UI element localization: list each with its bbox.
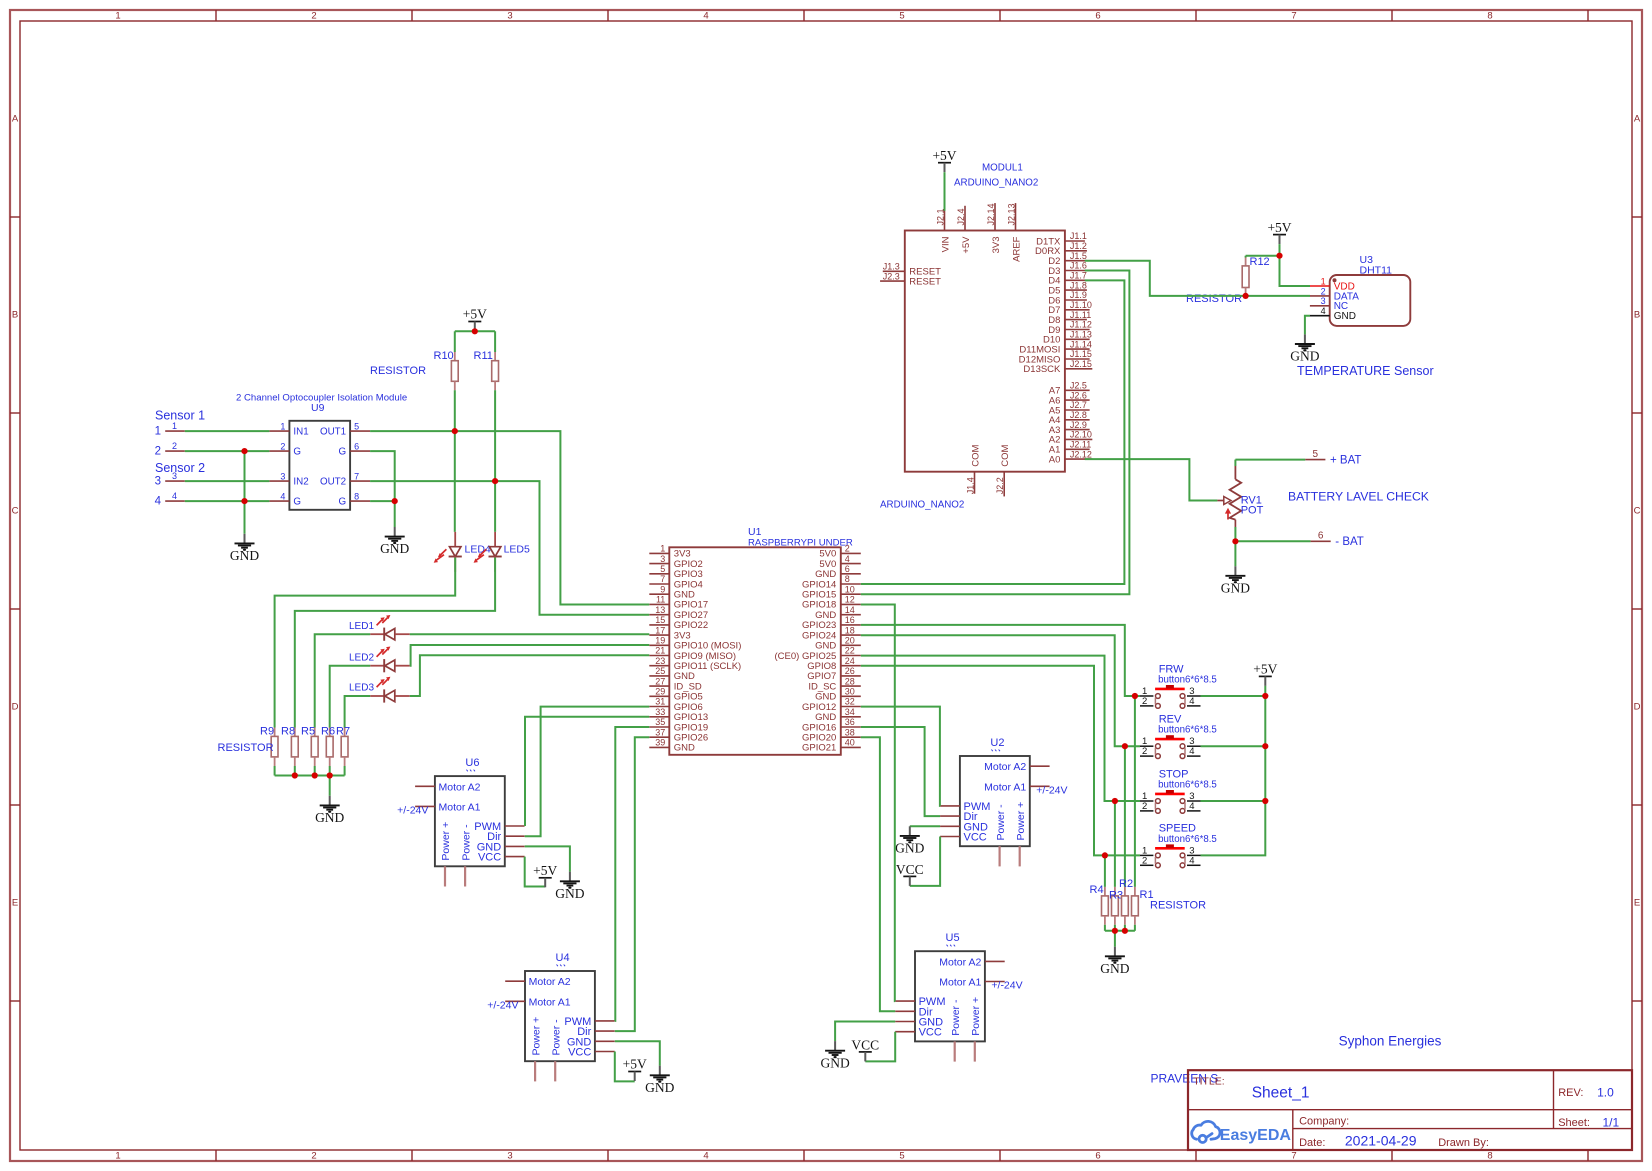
pin 2 of STOP xyxy=(1140,810,1153,812)
svg-text:GND: GND xyxy=(1221,580,1250,595)
svg-text:GND: GND xyxy=(895,841,924,856)
module MODUL1 ARDUINO_NANO2 body xyxy=(905,231,1065,472)
pin Motor A2 of U4 xyxy=(505,980,525,982)
svg-text:22: 22 xyxy=(845,646,855,656)
wire MODUL1 D2 to U3 DATA xyxy=(1085,261,1310,296)
pin 32 GPIO12 of U1 xyxy=(841,706,861,708)
orientation dot of U3 xyxy=(1333,278,1337,282)
svg-text:8: 8 xyxy=(354,491,359,501)
svg-text:20: 20 xyxy=(845,636,855,646)
wire U4 GND to ground xyxy=(615,1041,660,1065)
pin D0RX (J1.2) of MODUL1 xyxy=(1065,250,1087,252)
svg-text:6: 6 xyxy=(1095,11,1100,22)
pin PWM of U6 xyxy=(505,825,525,827)
pin 36 GPIO16 of U1 xyxy=(841,726,861,728)
svg-text:RESISTOR: RESISTOR xyxy=(1150,900,1206,912)
svg-text:VIN: VIN xyxy=(940,236,951,252)
wire LED1 cathode to R5 xyxy=(315,634,371,727)
wire LED2 cathode to R6 xyxy=(330,666,371,728)
pin AREF (J2.13) of MODUL1 xyxy=(1015,203,1017,230)
svg-text:10: 10 xyxy=(845,584,855,594)
svg-text:LED2: LED2 xyxy=(349,652,374,663)
wire SPEED node to R4 xyxy=(1104,855,1106,887)
svg-text:9: 9 xyxy=(660,584,665,594)
pin VCC of U2 xyxy=(940,836,960,838)
pin 29 GPIO5 of U1 xyxy=(649,695,669,697)
svg-text:R2: R2 xyxy=(1119,878,1133,890)
wire U1 GPIO6 pin31 to U6 Dir xyxy=(525,707,650,837)
svg-text:J1.5: J1.5 xyxy=(1070,251,1087,261)
svg-text:LED5: LED5 xyxy=(504,544,530,556)
svg-text:7: 7 xyxy=(1291,11,1296,22)
svg-text:4: 4 xyxy=(1189,855,1194,866)
pin 19 GPIO10 (MOSI) of U1 xyxy=(649,644,669,646)
wire RV1 top to +BAT port xyxy=(1235,459,1305,461)
wire RV1 bottom to ground xyxy=(1234,541,1236,566)
svg-text:1: 1 xyxy=(115,1151,120,1162)
svg-text:Power -: Power - xyxy=(460,824,472,861)
pin D7 (J1.10) of MODUL1 xyxy=(1065,309,1090,311)
pin D13SCK (J2.15) of MODUL1 xyxy=(1065,368,1092,370)
wire U1 GPIO16 pin36 to U2 Dir xyxy=(861,727,940,816)
pin 4 of REV xyxy=(1187,755,1201,757)
svg-text:4: 4 xyxy=(1189,696,1194,707)
svg-text:OUT2: OUT2 xyxy=(320,476,346,487)
resistor R8 xyxy=(294,728,296,737)
pin 7 GPIO4 of U1 xyxy=(649,583,669,585)
svg-text:37: 37 xyxy=(655,727,665,737)
svg-text:R6: R6 xyxy=(321,725,335,737)
svg-text:28: 28 xyxy=(845,676,855,686)
ground GND at U4 xyxy=(659,1066,661,1075)
svg-text:- BAT: - BAT xyxy=(1335,536,1364,548)
svg-text:Power -: Power - xyxy=(950,999,962,1036)
wire U3 GND pin to ground xyxy=(1305,316,1310,335)
svg-text:+5V: +5V xyxy=(463,307,487,322)
wire +5V to VDD xyxy=(1280,244,1311,286)
wire U1 GPIO24 pin18 to REV pin1 xyxy=(861,635,1140,746)
junction R11-OUT2 xyxy=(492,478,498,484)
svg-text:G: G xyxy=(338,446,346,457)
svg-text:GND: GND xyxy=(1334,311,1356,322)
ground GND below R5-R9 xyxy=(329,796,331,805)
svg-text:3: 3 xyxy=(660,554,665,564)
pin 1 of FRW xyxy=(1140,695,1153,697)
svg-text:17: 17 xyxy=(655,625,665,635)
svg-text:15: 15 xyxy=(655,615,665,625)
pin 13 GPIO27 of U1 xyxy=(649,614,669,616)
pin 34 GND of U1 xyxy=(841,716,861,718)
junction bus FRW xyxy=(1262,693,1268,699)
pin 3V3 (J2.14) of MODUL1 xyxy=(994,203,996,230)
wire MODUL1 D4 to U1 GPIO14 pin8 xyxy=(861,280,1125,584)
svg-text:G: G xyxy=(338,496,346,507)
pin VCC of U5 xyxy=(895,1031,915,1033)
svg-text:EasyEDA: EasyEDA xyxy=(1220,1127,1292,1144)
svg-text:2: 2 xyxy=(172,441,177,451)
svg-text:23: 23 xyxy=(655,656,665,666)
ground GND at U3 xyxy=(1304,334,1306,343)
pin 26 GPIO7 of U1 xyxy=(841,675,861,677)
svg-text:4: 4 xyxy=(1321,306,1326,316)
wire U9 pin8 to ground bus xyxy=(370,500,395,502)
svg-text:button6*6*8.5: button6*6*8.5 xyxy=(1158,725,1217,736)
pin A4 (J2.8) of MODUL1 xyxy=(1065,419,1090,421)
pin Power + of U4 xyxy=(534,1061,536,1081)
svg-text:7: 7 xyxy=(354,471,359,481)
svg-text:OUT1: OUT1 xyxy=(320,426,346,437)
junction R5 bottom xyxy=(312,772,318,778)
potentiometer RV1 body xyxy=(1230,479,1242,519)
svg-text:4: 4 xyxy=(703,1151,708,1162)
pin A5 (J2.7) of MODUL1 xyxy=(1065,409,1090,411)
wire STOP node to R3 xyxy=(1114,801,1116,887)
svg-text:3: 3 xyxy=(1321,296,1326,306)
svg-text:VCC: VCC xyxy=(478,852,501,864)
svg-text:R8: R8 xyxy=(281,725,295,737)
pin A3 (J2.9) of MODUL1 xyxy=(1065,429,1090,431)
svg-text:D: D xyxy=(12,701,19,712)
pin Power + of U2 xyxy=(1019,846,1021,866)
pin 1 VDD of U3 xyxy=(1310,285,1330,287)
wire MODUL1 D3 to U1 GPIO15 pin10 xyxy=(861,271,1130,595)
svg-text:5: 5 xyxy=(354,421,359,431)
potentiometer RV1 adjust arrow xyxy=(1227,512,1229,520)
svg-text:D: D xyxy=(1634,701,1641,712)
pin D3 (J1.6) of MODUL1 xyxy=(1065,270,1087,272)
resistor R5 xyxy=(314,728,316,737)
svg-text:J1.15: J1.15 xyxy=(1070,349,1092,359)
svg-text:1/1: 1/1 xyxy=(1603,1115,1620,1129)
svg-text:U5: U5 xyxy=(946,932,960,944)
svg-text:24: 24 xyxy=(845,656,855,666)
svg-text:7: 7 xyxy=(1291,1151,1296,1162)
resistor R1 xyxy=(1134,887,1136,896)
pin 3 of FRW xyxy=(1187,695,1201,697)
wire LED1 anode to U1 pin17 xyxy=(410,633,650,635)
junction bus REV xyxy=(1262,743,1268,749)
svg-text:J1.10: J1.10 xyxy=(1070,300,1092,310)
pin 30 GND of U1 xyxy=(841,695,861,697)
pin 1 of SPEED xyxy=(1140,854,1153,856)
svg-text:button6*6*8.5: button6*6*8.5 xyxy=(1158,674,1217,685)
junction U9 pin8 node xyxy=(392,498,398,504)
pin VIN (J2.1) of MODUL1 xyxy=(944,208,946,230)
pin GND of U4 xyxy=(595,1040,615,1042)
svg-text:GND: GND xyxy=(820,1055,849,1070)
wire port 4 to U9 pin 4 xyxy=(185,500,270,502)
wire U1 GPIO8 pin24 to SPEED pin1 xyxy=(861,666,1140,856)
svg-text:35: 35 xyxy=(655,717,665,727)
module U5 motor driver body xyxy=(915,951,985,1041)
svg-text:5: 5 xyxy=(899,1151,904,1162)
ground GND at U9 right xyxy=(394,527,396,536)
pin A1 (J2.11) of MODUL1 xyxy=(1065,448,1090,450)
pin 35 GPIO19 of U1 xyxy=(649,726,669,728)
junction +5V R12 xyxy=(1276,253,1282,259)
svg-text:J1.7: J1.7 xyxy=(1070,271,1087,281)
pin 23 GPIO11 (SCLK) of U1 xyxy=(649,665,669,667)
svg-text:GND: GND xyxy=(645,1080,674,1095)
svg-text:2: 2 xyxy=(1142,801,1147,812)
pin COM (J1.4) of MODUL1 xyxy=(974,472,976,494)
svg-text:E: E xyxy=(12,897,18,908)
resistor R12 xyxy=(1242,266,1249,288)
pin PWM of U2 xyxy=(940,805,960,807)
svg-text:Sensor 1: Sensor 1 xyxy=(155,408,205,422)
junction port2 xyxy=(241,448,247,454)
svg-text:D13SCK: D13SCK xyxy=(1023,364,1061,375)
svg-text:8: 8 xyxy=(845,574,850,584)
svg-text:Syphon Energies: Syphon Energies xyxy=(1339,1034,1442,1049)
wire U5 GND to ground xyxy=(835,1022,895,1042)
pin 5 GPIO3 of U1 xyxy=(649,573,669,575)
junction port4 xyxy=(241,498,247,504)
pin 2 DATA of U3 xyxy=(1310,295,1330,297)
svg-text:Date:: Date: xyxy=(1299,1137,1325,1149)
svg-text:GND: GND xyxy=(555,886,584,901)
svg-text:2: 2 xyxy=(1142,855,1147,866)
svg-text:VCC: VCC xyxy=(896,862,924,877)
resistor R4 xyxy=(1104,887,1106,896)
svg-text:5: 5 xyxy=(660,564,665,574)
svg-text:U9: U9 xyxy=(311,402,325,414)
svg-text:2: 2 xyxy=(311,11,316,22)
wire FRW node to R1 xyxy=(1134,696,1136,887)
svg-text:38: 38 xyxy=(845,727,855,737)
pin 18 GPIO24 of U1 xyxy=(841,634,861,636)
wire R1-R4 bottom bus xyxy=(1105,930,1135,932)
svg-text:Sensor 2: Sensor 2 xyxy=(155,461,205,475)
svg-text:J2.15: J2.15 xyxy=(1070,359,1092,369)
svg-text:J2.6: J2.6 xyxy=(1070,390,1087,400)
resistor R6 xyxy=(329,728,331,737)
pin 1 of REV xyxy=(1140,745,1153,747)
pin 33 GPIO13 of U1 xyxy=(649,716,669,718)
wire REV node to R2 xyxy=(1124,746,1126,887)
svg-text:J1.13: J1.13 xyxy=(1070,330,1092,340)
pin D6 (J1.9) of MODUL1 xyxy=(1065,299,1087,301)
junction R10-OUT1 xyxy=(452,428,458,434)
pin 5 OUT1 of U9 xyxy=(350,430,370,432)
svg-text:3: 3 xyxy=(507,11,512,22)
pin 6 G of U9 xyxy=(350,450,370,452)
pin Dir of U5 xyxy=(895,1010,915,1012)
svg-text:Motor A1: Motor A1 xyxy=(984,781,1026,793)
pin 17 3V3 of U1 xyxy=(649,634,669,636)
svg-text:GND: GND xyxy=(1100,961,1129,976)
wire R12 bottom to DATA net xyxy=(1245,288,1247,296)
pin 3 NC of U3 xyxy=(1310,305,1330,307)
wire U1 GPIO13 pin33 to U6 PWM xyxy=(525,717,649,826)
svg-text:29: 29 xyxy=(655,687,665,697)
svg-text:MODUL1: MODUL1 xyxy=(982,163,1023,174)
svg-text:IN1: IN1 xyxy=(293,426,308,437)
pin 37 GPIO26 of U1 xyxy=(649,736,669,738)
svg-text:1: 1 xyxy=(155,426,161,438)
wire LED4 cathode to R9 xyxy=(275,558,456,728)
resistor R7 xyxy=(344,728,346,737)
svg-text:R9: R9 xyxy=(260,725,274,737)
svg-text:GND: GND xyxy=(674,743,695,754)
svg-text:14: 14 xyxy=(845,605,855,615)
wire U4 VCC to +5V xyxy=(615,1052,635,1082)
pin 3 of REV xyxy=(1187,745,1201,747)
LED LED3 xyxy=(370,695,384,697)
svg-text:4: 4 xyxy=(1189,746,1194,757)
svg-text:+5V: +5V xyxy=(533,863,557,878)
svg-text:J2.5: J2.5 xyxy=(1070,381,1087,391)
junction R3 bottom xyxy=(1112,928,1118,934)
pin 31 GPIO6 of U1 xyxy=(649,706,669,708)
pin D2 (J1.5) of MODUL1 xyxy=(1065,260,1087,262)
svg-text:19: 19 xyxy=(655,636,665,646)
svg-text:ARDUINO_NANO2: ARDUINO_NANO2 xyxy=(954,178,1038,189)
svg-text:J2.1: J2.1 xyxy=(935,208,945,225)
wire ports 2-4 ground bus xyxy=(244,451,246,534)
svg-text:J1.3: J1.3 xyxy=(883,262,900,272)
resistor R11 xyxy=(492,361,499,382)
pin 6 GND of U1 xyxy=(841,573,861,575)
pin 38 GPIO20 of U1 xyxy=(841,736,861,738)
svg-text:R11: R11 xyxy=(474,350,493,362)
wire port 3 to U9 pin 3 xyxy=(185,480,270,482)
pin RESET (J2.3) of MODUL1 xyxy=(880,280,905,282)
pin 2 G of U9 xyxy=(269,450,289,452)
pin 25 GND of U1 xyxy=(649,675,669,677)
svg-text:16: 16 xyxy=(845,615,855,625)
wire ground drop U9 right xyxy=(394,501,396,527)
module U6 motor driver body xyxy=(435,776,505,866)
wire U6 VCC to +5V xyxy=(525,857,546,887)
junction +5V split xyxy=(472,328,478,334)
pin 28 ID_SC of U1 xyxy=(841,685,861,687)
pin D10 (J1.13) of MODUL1 xyxy=(1065,338,1090,340)
svg-text:J1.4: J1.4 xyxy=(965,477,975,494)
pin VCC of U4 xyxy=(595,1051,615,1053)
ground GND at U6 xyxy=(569,872,571,881)
ground GND below R1-R4 xyxy=(1114,947,1116,956)
pin D9 (J1.12) of MODUL1 xyxy=(1065,329,1090,331)
svg-text:12: 12 xyxy=(845,595,855,605)
wire R10 bottom to OUT1 net and LED4 xyxy=(454,381,456,390)
svg-text:J1.1: J1.1 xyxy=(1070,231,1087,241)
svg-text:4: 4 xyxy=(703,11,708,22)
wire RV1 top lead to +BAT net xyxy=(1234,460,1236,466)
wire port 1 to U9 pin 1 xyxy=(185,430,270,432)
svg-text:J2.11: J2.11 xyxy=(1070,440,1091,450)
pin PWM of U5 xyxy=(895,1000,915,1002)
svg-text:18: 18 xyxy=(845,625,855,635)
module U4 motor driver body xyxy=(525,971,595,1061)
wire U1 GPIO23 pin16 to FRW pin1 xyxy=(861,625,1140,696)
svg-text:RESET: RESET xyxy=(909,276,941,287)
resistor R10 xyxy=(451,361,458,382)
pin D5 (J1.8) of MODUL1 xyxy=(1065,289,1087,291)
svg-text:40: 40 xyxy=(845,738,855,748)
pin 21 GPIO9 (MISO) of U1 xyxy=(649,655,669,657)
port pin 3 of sensor connector xyxy=(165,480,185,482)
pin A0 (J2.12) of MODUL1 xyxy=(1065,458,1092,460)
svg-text:G: G xyxy=(293,446,301,457)
svg-text:J2.13: J2.13 xyxy=(1006,203,1016,225)
pin 7 OUT2 of U9 xyxy=(350,480,370,482)
svg-text:34: 34 xyxy=(845,707,855,717)
pin Motor A2 of U5 xyxy=(985,960,1005,962)
pin 24 GPIO8 of U1 xyxy=(841,665,861,667)
svg-text:ARDUINO_NANO2: ARDUINO_NANO2 xyxy=(880,500,964,511)
wire R10 top lead xyxy=(454,331,456,352)
svg-text:R7: R7 xyxy=(336,725,350,737)
wire +5V bus to button pins 3 xyxy=(1201,686,1266,856)
svg-text:J2.4: J2.4 xyxy=(956,208,966,225)
svg-text:1: 1 xyxy=(660,544,665,554)
junction RV1 bottom xyxy=(1232,538,1238,544)
pin Motor A1 of U4 xyxy=(505,1000,525,1002)
svg-text:4: 4 xyxy=(155,496,162,508)
pin RESET (J1.3) of MODUL1 xyxy=(883,270,905,272)
wire R11 bottom to OUT2 net and LED5 xyxy=(494,381,496,390)
pin 20 GND of U1 xyxy=(841,644,861,646)
svg-text:J1.9: J1.9 xyxy=(1070,290,1087,300)
wire bank to ground xyxy=(329,776,331,796)
wire port 2 to U9 pin 2 xyxy=(185,450,270,452)
wire LED2 anode to U1 pin19 xyxy=(410,645,650,666)
svg-text:C: C xyxy=(1634,505,1641,516)
wire to -BAT port xyxy=(1235,540,1310,542)
wire U5 VCC to VCC flag xyxy=(865,1032,895,1062)
ground GND at U5 xyxy=(834,1041,836,1050)
svg-text:26: 26 xyxy=(845,666,855,676)
ground GND at U2 xyxy=(909,826,911,835)
pin 4 of STOP xyxy=(1187,810,1201,812)
svg-text:13: 13 xyxy=(655,605,665,615)
pin D11MOSI (J1.14) of MODUL1 xyxy=(1065,348,1090,350)
resistor R3 xyxy=(1114,887,1116,896)
pin 4 G of U9 xyxy=(269,500,289,502)
svg-text:3: 3 xyxy=(172,471,177,481)
pin 16 GPIO23 of U1 xyxy=(841,624,861,626)
ground GND at RV1 xyxy=(1234,566,1236,575)
wire R11 top lead xyxy=(494,331,496,352)
svg-text:+ BAT: + BAT xyxy=(1330,454,1361,466)
svg-text:J2.9: J2.9 xyxy=(1070,420,1087,430)
svg-text:4: 4 xyxy=(1189,801,1194,812)
port pin 2 of sensor connector xyxy=(165,450,185,452)
svg-text:GND: GND xyxy=(230,548,259,563)
LED LED2 xyxy=(370,665,384,667)
svg-text:Motor A2: Motor A2 xyxy=(439,781,481,793)
svg-text:5: 5 xyxy=(899,11,904,22)
svg-text:COM: COM xyxy=(970,444,981,466)
svg-text:J2.2: J2.2 xyxy=(995,477,1005,494)
wire +5V branch to R12 top xyxy=(1246,255,1280,257)
svg-text:Motor A2: Motor A2 xyxy=(939,956,981,968)
svg-text:5: 5 xyxy=(1313,449,1319,460)
wire OUT2 (U9 pin7) to U1 GPIO27 pin13 xyxy=(370,481,649,615)
svg-text:COM: COM xyxy=(1000,444,1011,466)
pin 4 5V0 of U1 xyxy=(841,563,861,565)
pin 2 of SPEED xyxy=(1140,864,1153,866)
pin 40 GPIO21 of U1 xyxy=(841,746,861,748)
svg-text:11: 11 xyxy=(656,595,665,605)
svg-text:+/-24V: +/-24V xyxy=(487,999,518,1011)
pin 3 GPIO2 of U1 xyxy=(649,563,669,565)
pin 12 GPIO18 of U1 xyxy=(841,603,861,605)
pin 1 3V3 of U1 xyxy=(649,552,669,554)
svg-text:Motor A1: Motor A1 xyxy=(939,977,981,989)
pin 39 GND of U1 xyxy=(649,746,669,748)
